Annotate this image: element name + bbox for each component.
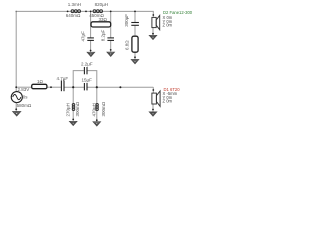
svg-text:6.8Ω: 6.8Ω bbox=[124, 40, 129, 50]
svg-text:470µH: 470µH bbox=[92, 103, 97, 116]
svg-text:1Ω: 1Ω bbox=[37, 79, 44, 84]
svg-text:300mΩ: 300mΩ bbox=[75, 101, 80, 116]
svg-text:15µF: 15µF bbox=[82, 77, 93, 82]
svg-text:300mΩ: 300mΩ bbox=[101, 101, 106, 116]
svg-text:580mΩ: 580mΩ bbox=[17, 103, 32, 108]
svg-text:2.83V: 2.83V bbox=[18, 87, 30, 92]
svg-text:8.2µF: 8.2µF bbox=[100, 29, 105, 41]
svg-text:33Ω: 33Ω bbox=[99, 17, 108, 22]
svg-text:4.7µF: 4.7µF bbox=[57, 76, 69, 81]
svg-text:Z 0m: Z 0m bbox=[163, 98, 173, 103]
svg-text:1.3mH: 1.3mH bbox=[68, 2, 81, 7]
svg-text:2.2µF: 2.2µF bbox=[81, 62, 93, 67]
svg-text:0s: 0s bbox=[23, 95, 29, 100]
svg-text:300µF: 300µF bbox=[124, 14, 129, 27]
svg-text:D2 Fane12-300: D2 Fane12-300 bbox=[163, 10, 193, 15]
svg-text:Z 0m: Z 0m bbox=[163, 23, 173, 28]
svg-text:820µH: 820µH bbox=[95, 2, 108, 7]
svg-text:47µF: 47µF bbox=[81, 31, 86, 42]
svg-text:640mΩ: 640mΩ bbox=[66, 13, 81, 18]
svg-text:270µH: 270µH bbox=[66, 103, 71, 116]
